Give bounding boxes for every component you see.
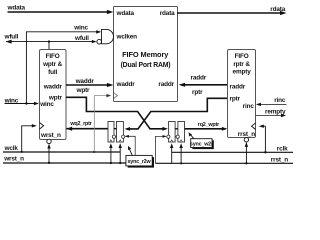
wire sync_w2r reset feed <box>155 136 165 163</box>
svg-text:winc: winc <box>39 101 54 108</box>
pin reset bubble FF1 w2r <box>167 135 170 138</box>
wire sync_r2w reset feed <box>126 136 135 163</box>
callout arrow sync_r2w <box>129 148 132 155</box>
svg-text:FIFO Memory: FIFO Memory <box>122 50 169 59</box>
svg-text:wfull: wfull <box>4 34 19 41</box>
svg-text:rinc: rinc <box>243 103 255 110</box>
svg-text:raddr: raddr <box>191 74 207 81</box>
svg-text:raddr: raddr <box>230 84 246 91</box>
node winc junction <box>25 102 27 104</box>
pin wclk clock triangle on wptr block <box>40 123 44 129</box>
svg-text:rempty: rempty <box>265 108 286 115</box>
pin rrst_n bubble on rptr block <box>244 138 248 142</box>
svg-text:wclken: wclken <box>116 34 138 41</box>
gate U_and wclken (AND with inverted input) <box>97 39 102 44</box>
svg-text:rrst_n: rrst_n <box>238 131 255 138</box>
wire wdata <box>8 11 111 13</box>
node rrst junction <box>245 162 247 164</box>
wire reset feed behind sync_r2w flops <box>115 135 126 137</box>
svg-text:rinc: rinc <box>274 97 286 104</box>
svg-text:(Dual Port RAM): (Dual Port RAM) <box>121 62 171 69</box>
wire rdata <box>177 12 284 14</box>
wire link between sync_w2r flops <box>175 128 178 130</box>
FIFO Memory U_mem (Dual Port RAM) <box>114 7 178 102</box>
svg-text:wdata: wdata <box>7 5 26 12</box>
pin reset bubble FF2 w2r <box>176 135 179 138</box>
svg-text:sync_r2w: sync_r2w <box>128 159 152 165</box>
wire wclk to RAM <box>94 96 109 152</box>
wire wrst_n riser to bubble <box>48 145 50 163</box>
label box sync_w2r (shadow) <box>192 140 213 149</box>
svg-text:wdata: wdata <box>116 10 135 17</box>
FIFO rptr &amp; empty block U_rptr <box>228 50 256 138</box>
label box sync_r2w <box>126 155 152 166</box>
svg-text:rq2_wptr: rq2_wptr <box>198 122 220 128</box>
svg-text:wq2_rptr: wq2_rptr <box>69 121 92 127</box>
svg-text:wfull: wfull <box>74 35 89 42</box>
FIFO wptr &amp; full block U_wptr <box>40 50 67 140</box>
flip-flop FF1 of sync_r2w <box>108 122 114 143</box>
wire rrst_n riser to bubble <box>245 143 247 163</box>
callout arrow sync_w2r <box>190 134 194 139</box>
svg-text:rptr: rptr <box>230 96 241 103</box>
flip-flop FF2 of sync_r2w <box>117 122 124 143</box>
wire rclk to rptr block <box>261 126 266 152</box>
flip-flop FF2 of sync_w2r <box>178 122 185 143</box>
wire wclk risers to sync_r2w flops <box>110 145 112 163</box>
pin wrst_n bubble on wptr block <box>47 139 51 143</box>
svg-text:wptr &: wptr & <box>42 61 63 68</box>
flip-flop FF1 of sync_w2r <box>169 122 176 143</box>
node wrst junction <box>48 162 50 164</box>
svg-text:sync_w2r: sync_w2r <box>190 142 214 148</box>
wire wfull riser to wptr block <box>48 42 50 50</box>
pin rclk clock triangle on rptr block <box>252 123 256 129</box>
pin clock notch FF1 w2r <box>171 140 173 142</box>
svg-text:rptr &: rptr & <box>233 61 250 68</box>
svg-text:winc: winc <box>73 24 88 31</box>
svg-text:rptr: rptr <box>192 89 203 96</box>
label box sync_w2r <box>191 139 212 148</box>
svg-text:wclk: wclk <box>4 145 19 152</box>
node wfull junction <box>48 40 50 42</box>
pin clock notch FF2 w2r <box>180 140 182 142</box>
wire rclk risers to sync_w2r flops <box>171 145 173 164</box>
label box sync_r2w (shadow) <box>128 157 154 168</box>
svg-text:raddr: raddr <box>158 81 174 88</box>
svg-text:empty: empty <box>233 69 252 76</box>
svg-text:full: full <box>48 69 57 76</box>
pin clock notch FF1 r2w <box>110 140 112 142</box>
svg-text:wrst_n: wrst_n <box>3 156 24 163</box>
svg-text:rrst_n: rrst_n <box>271 156 288 163</box>
svg-text:waddr: waddr <box>43 84 63 91</box>
svg-text:waddr: waddr <box>75 78 95 85</box>
pin wclk clock triangle on RAM <box>114 93 118 99</box>
svg-text:rclk: rclk <box>277 146 288 153</box>
pin reset bubble FF2 <box>122 135 125 138</box>
svg-text:wrst_n: wrst_n <box>40 132 61 139</box>
svg-text:rdata: rdata <box>160 10 175 17</box>
wire link between sync_r2w flops <box>114 128 117 130</box>
pin clock notch FF2 r2w <box>119 140 121 142</box>
svg-text:rdata: rdata <box>270 6 285 13</box>
wire wclk to wptr block <box>22 126 35 152</box>
svg-text:FIFO: FIFO <box>46 53 60 60</box>
svg-text:wptr: wptr <box>76 87 91 94</box>
pin reset bubble FF1 <box>112 135 115 138</box>
svg-text:FIFO: FIFO <box>235 53 249 60</box>
svg-text:waddr: waddr <box>116 81 136 88</box>
